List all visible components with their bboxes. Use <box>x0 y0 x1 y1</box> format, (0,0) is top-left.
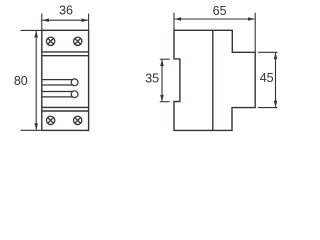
arrowhead 80 down <box>34 123 38 130</box>
arrowhead 36 right <box>82 18 89 22</box>
terminal cover separator lines top <box>42 51 89 53</box>
actuator slot 2 lines <box>42 92 73 97</box>
arrowhead 36 left <box>42 18 49 22</box>
actuator slot 1 knob <box>71 79 78 86</box>
dim 36 extension lines <box>41 14 43 31</box>
arrowhead 45 up <box>274 53 278 60</box>
dim 80 dimension line <box>35 31 37 130</box>
actuator slot 2 knob <box>71 91 78 98</box>
arrowhead 45 down <box>274 101 278 108</box>
dim 45 dimension line <box>275 53 277 107</box>
terminal cover separator lines bottom <box>42 106 89 108</box>
arrowhead 35 up <box>160 60 164 67</box>
arrowhead 65 right <box>248 17 255 21</box>
svg-text:35: 35 <box>145 72 159 86</box>
dim 65 extension lines <box>173 13 175 31</box>
screw terminal bottom-right <box>74 116 82 124</box>
svg-text:45: 45 <box>260 71 274 85</box>
side view internal edge <box>212 30 214 130</box>
dim 35 dimension line <box>161 60 163 101</box>
svg-text:65: 65 <box>213 4 227 18</box>
arrowhead 35 down <box>160 95 164 102</box>
arrowhead 65 left <box>175 17 182 21</box>
front view body outline <box>42 30 89 130</box>
screw terminal bottom-left <box>46 116 54 124</box>
arrowhead 80 up <box>34 31 38 38</box>
dim 65 dimension line <box>175 18 255 20</box>
dim 36 dimension line <box>43 19 88 21</box>
actuator slot 1 lines <box>42 80 73 85</box>
dim 35 extension ticks <box>160 58 170 60</box>
screw terminal top-left <box>46 37 54 45</box>
svg-text:36: 36 <box>59 4 73 18</box>
side view outline <box>174 30 255 130</box>
dim 80 extension ticks <box>21 29 42 31</box>
svg-text:80: 80 <box>14 74 28 88</box>
screw terminal top-right <box>74 37 82 45</box>
dim 45 extension ticks <box>258 51 277 53</box>
